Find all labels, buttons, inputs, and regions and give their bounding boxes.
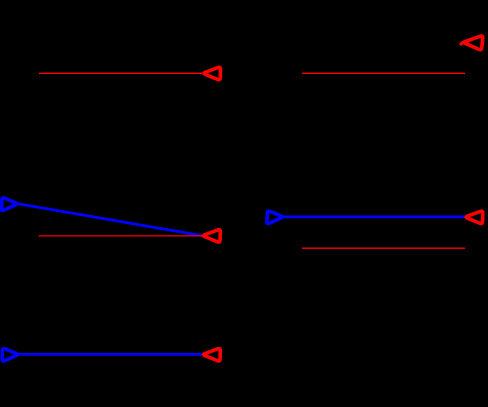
red vector line mid-right lower — [302, 247, 465, 249]
blue vector line mid-left (slanted) — [18, 204, 202, 236]
blue arrowhead bottom-left (tip right) — [2, 349, 17, 362]
red arrowhead top-left (hollow rounded triangle, tip left) — [204, 67, 221, 79]
blue vector line bottom-left — [19, 353, 203, 356]
red arrowhead mid-left — [204, 230, 221, 242]
red vector line mid-left — [39, 235, 202, 237]
red vector line top-right — [302, 72, 465, 74]
blue arrowhead mid-right (tip right) — [267, 211, 282, 224]
red arrowhead bottom-left (tip left) — [204, 349, 221, 361]
red vector line top-left — [39, 72, 202, 74]
blue vector line mid-right — [283, 215, 464, 218]
stub at tip of detached arrowhead — [461, 42, 463, 44]
red arrowhead mid-right (tip left) — [466, 211, 483, 223]
red arrowhead top-right corner (detached, tilted) — [464, 36, 482, 50]
blue arrowhead mid-left (hollow rounded triangle, tip right) — [2, 198, 17, 211]
